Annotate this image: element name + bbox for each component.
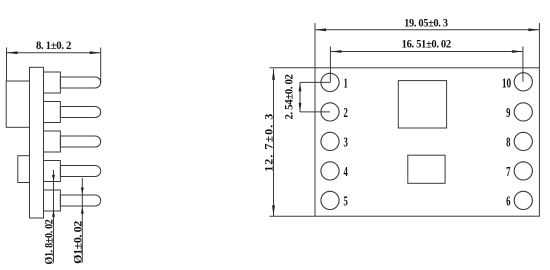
svg-text:3: 3: [344, 134, 348, 150]
lower rectangular window: [408, 155, 445, 183]
hole 5: [321, 191, 339, 209]
leader line dia 1.8: [53, 170, 55, 263]
svg-text:7: 7: [506, 164, 510, 180]
arrow right 16.51: [512, 50, 523, 53]
pin 5 collar: [44, 190, 61, 211]
extension line right 16.51 into hole 10: [522, 47, 524, 82]
arrow down 2.54: [299, 103, 302, 112]
svg-text:8: 8: [506, 134, 510, 150]
pin 4 collar: [44, 161, 61, 182]
arrow right 8.1: [90, 51, 101, 54]
svg-text:10: 10: [502, 74, 511, 90]
pin 4 shaft: [60, 166, 100, 177]
svg-text:4: 4: [344, 164, 348, 180]
arrow up 2.54: [299, 82, 302, 91]
pin 2 shaft: [60, 107, 100, 118]
extension line right 8.1: [100, 48, 102, 84]
connector body block: [6, 81, 29, 127]
dimension line 8.1: [7, 52, 101, 54]
svg-text:Ø1±0. 02: Ø1±0. 02: [71, 221, 85, 264]
pin 1 collar: [44, 72, 61, 93]
svg-text:5: 5: [344, 193, 348, 209]
dimension line 12.7: [273, 69, 275, 217]
pin 5 shaft: [60, 195, 100, 206]
leader to hole 1 center: [300, 81, 330, 83]
hole 4: [321, 162, 339, 180]
hole 2: [321, 103, 339, 121]
arrow left 19.05: [315, 28, 326, 31]
arrow left 8.1: [7, 51, 18, 54]
extension line top 12.7: [270, 67, 316, 69]
center square window: [398, 81, 446, 128]
arrow down 12.7: [272, 205, 275, 216]
hole 9: [514, 103, 532, 121]
dimension line 2.54: [299, 82, 301, 112]
hole 10: [514, 73, 532, 91]
arrow up 12.7: [272, 69, 275, 80]
svg-text:8. 1±0. 2: 8. 1±0. 2: [36, 39, 72, 52]
arrow down at shaft top: [81, 188, 84, 195]
svg-text:Ø1. 8±0. 02: Ø1. 8±0. 02: [43, 219, 56, 265]
pin 3 shaft: [60, 136, 100, 147]
housing outline: [315, 68, 539, 216]
leader to hole 2 center: [300, 111, 330, 113]
extension line right 19.05: [538, 23, 540, 68]
hole 8: [514, 132, 532, 150]
hole 7: [514, 162, 532, 180]
pin 2 collar: [44, 102, 61, 123]
extension line left 19.05: [314, 23, 316, 68]
svg-text:2: 2: [344, 105, 348, 121]
arrow left 16.51: [330, 50, 341, 53]
pin 3 collar: [44, 131, 61, 152]
extension line bottom 12.7: [270, 215, 316, 217]
svg-text:16. 51±0. 02: 16. 51±0. 02: [402, 38, 452, 51]
arrow down at collar bottom: [52, 175, 55, 182]
arrow up at collar5 bottom: [52, 210, 55, 217]
extension line left 8.1: [6, 48, 8, 82]
arrow up at shaft bottom: [81, 207, 84, 214]
svg-text:19. 05±0. 3: 19. 05±0. 3: [404, 17, 448, 30]
hole 3: [321, 132, 339, 150]
dimension line 16.51: [330, 51, 523, 53]
svg-text:1: 1: [344, 75, 348, 91]
svg-text:6: 6: [506, 193, 510, 209]
arrow right 19.05: [528, 28, 539, 31]
svg-text:2. 54±0. 02: 2. 54±0. 02: [283, 74, 296, 120]
svg-text:9: 9: [506, 105, 510, 121]
hole 6: [514, 191, 532, 209]
leader line dia 1: [81, 178, 83, 263]
extension line left 16.51 into hole 1: [329, 47, 331, 83]
side tab: [18, 156, 30, 183]
mounting plate: [30, 67, 44, 218]
dimension line 19.05: [315, 29, 539, 31]
pin 1 shaft: [60, 77, 100, 88]
hole 1: [321, 73, 339, 91]
